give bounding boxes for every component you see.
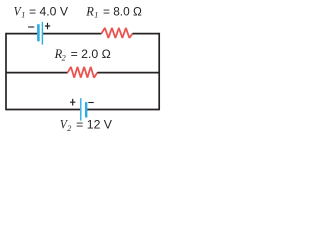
battery V1 minus sign: [28, 26, 34, 28]
wire: top middle segment: [43, 33, 101, 35]
battery V2 plus sign: [70, 99, 75, 106]
svg-text:= 4.0 V: = 4.0 V: [29, 5, 68, 19]
label R2 = 2.0 ohm: [54, 46, 111, 62]
resistor R1 zigzag: [101, 28, 132, 38]
resistor R2 zigzag: [68, 67, 98, 78]
svg-text:1: 1: [21, 11, 25, 20]
battery V2 negative plate (thick short): [85, 102, 87, 117]
svg-text:= 2.0 Ω: = 2.0 Ω: [71, 47, 111, 61]
svg-text:2: 2: [62, 53, 66, 62]
battery V2 positive plate (thin long): [80, 98, 82, 120]
battery V1 negative plate (thick short): [37, 24, 40, 41]
battery V1 positive plate (thin long): [41, 22, 43, 45]
label V2 = 12 V: [60, 117, 112, 133]
svg-text:= 12 V: = 12 V: [76, 118, 112, 132]
wire: left edge: [5, 33, 7, 111]
wire: bottom left segment: [6, 109, 80, 111]
battery V1 plus sign: [45, 23, 50, 29]
wire: right edge: [158, 33, 160, 111]
wire: middle right segment: [97, 72, 159, 74]
svg-text:R: R: [85, 4, 94, 19]
svg-text:1: 1: [94, 11, 98, 20]
label V1 = 4.0 V: [14, 4, 69, 20]
svg-text:= 8.0 Ω: = 8.0 Ω: [103, 5, 142, 19]
wire: top right segment: [133, 33, 160, 35]
wire: bottom right segment: [87, 109, 159, 111]
battery V2 minus sign: [88, 102, 94, 104]
label R1 = 8.0 ohm: [85, 4, 142, 20]
svg-text:2: 2: [67, 124, 71, 133]
wire: middle left segment: [6, 72, 68, 74]
wire: top left segment: [6, 33, 37, 35]
